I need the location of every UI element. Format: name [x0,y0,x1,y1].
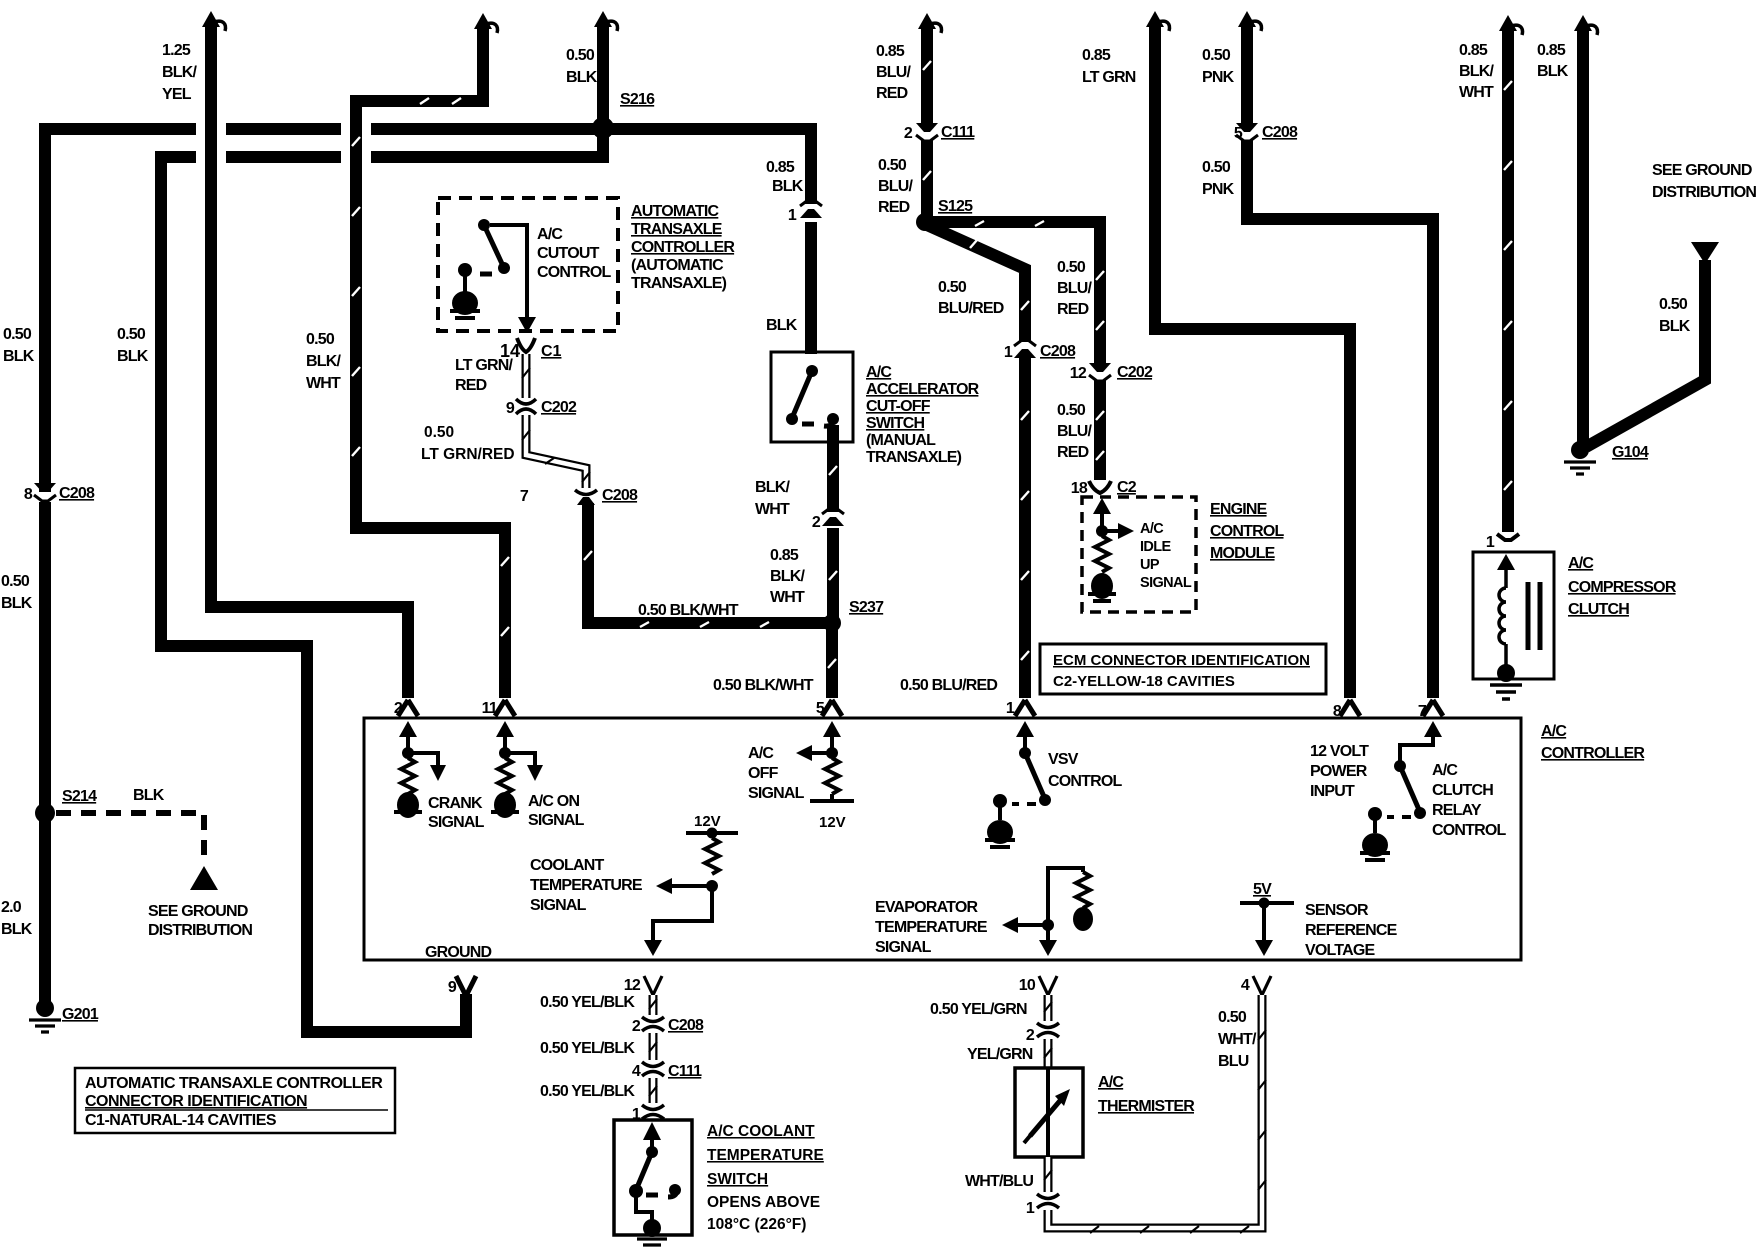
wire thin LT GRN/RED C1-14 to C202-9 [522,354,530,398]
connector C111 pin 4 (yel/blk) [642,1062,664,1076]
svg-text:COOLANT: COOLANT [530,857,605,874]
wire YEL/BLK pin12 to C208-2 [649,995,657,1015]
svg-text:BLK/: BLK/ [162,64,197,81]
svg-text:C208: C208 [59,485,95,502]
label 0.50 BLK/WHT (W4) [306,331,341,392]
svg-text:10: 10 [1019,977,1036,994]
wire accel switch to connector 2 to S237 [829,425,837,618]
svg-text:SIGNAL: SIGNAL [748,785,805,802]
ATC box text [85,1075,388,1129]
svg-text:108°C (226°F): 108°C (226°F) [707,1216,806,1233]
svg-text:S125: S125 [938,198,973,215]
svg-text:0.85: 0.85 [876,43,905,60]
svg-text:0.50 YEL/BLK: 0.50 YEL/BLK [540,1040,635,1057]
connector compressor pin 1 [1497,534,1519,540]
pin 5 connector top [822,700,842,716]
label 0.50 PNK (lower) [1202,159,1235,198]
svg-text:1: 1 [632,1106,641,1123]
label EVAPORATOR TEMPERATURE SIGNAL [875,899,988,956]
wire S237 horizontal to C208-7 riser [584,503,828,627]
wire S125 diagonal to C208-1 to pin 1 [927,225,1029,698]
svg-text:BLK: BLK [117,348,149,365]
wire YEL/BLK C208-2 to C111-4 [649,1033,657,1060]
top arrow W4 [474,13,498,33]
svg-text:0.85: 0.85 [766,159,795,176]
label 0.50 BLK (G104 wire) [1659,296,1691,335]
wire 0.50 PNK to pin 7 [1247,22,1433,698]
splice S125 [916,213,934,231]
svg-text:0.85: 0.85 [1082,47,1111,64]
svg-text:12: 12 [1070,365,1087,382]
svg-text:TEMPERATURE: TEMPERATURE [530,877,643,894]
svg-text:BLU/: BLU/ [878,178,913,195]
label SEE GROUND DISTRIBUTION left [148,903,252,939]
wire S214 dashed to ground triangle [56,813,218,890]
label 0.50 BLK (W2) [117,326,149,365]
ECM box text [1053,652,1310,690]
a/c on signal circuit [491,721,543,818]
svg-text:AUTOMATIC: AUTOMATIC [631,203,720,220]
pin 1 connector top [1015,700,1035,716]
connector C208 pin 7 [575,490,597,505]
svg-text:12V: 12V [694,813,721,830]
wire S237 down to pin 5 [828,627,836,698]
svg-text:DISTRIBUTION: DISTRIBUTION [148,922,252,939]
svg-text:12V: 12V [819,814,846,831]
connector C202 pin 12 [1089,363,1111,381]
svg-text:1: 1 [1006,700,1015,717]
top arrow PNK [1238,11,1262,31]
svg-text:WHT/BLU: WHT/BLU [965,1173,1033,1190]
top arrow BLK [1574,15,1598,35]
labels YEL/BLK chain [540,994,704,1123]
svg-text:C202: C202 [541,399,577,416]
svg-text:0.50 YEL/GRN: 0.50 YEL/GRN [930,1001,1027,1018]
compressor clutch coil and plates [1490,554,1540,699]
wire 0.85 BLK/WHT to compressor clutch pin 1 [1504,26,1512,532]
connector pin 1 (thermister) [1037,1194,1059,1208]
svg-text:TRANSAXLE): TRANSAXLE) [866,449,962,466]
a/c off signal circuit [796,721,854,801]
wire W2 ground run to pin 9 [161,157,466,1032]
svg-text:VOLTAGE: VOLTAGE [1305,942,1375,959]
connector pin 1 (coolant switch) [642,1105,664,1119]
connector C208 pin 8 [34,483,56,502]
wire see-ground triangle to G104 [1586,260,1705,447]
svg-text:G201: G201 [62,1006,99,1023]
svg-text:CLUTCH: CLUTCH [1432,782,1493,799]
label 12 C202 [1070,364,1153,382]
svg-text:SENSOR: SENSOR [1305,902,1369,919]
svg-text:2: 2 [394,700,403,717]
evaporator temperature signal circuit [1002,868,1093,956]
svg-text:0.50 YEL/BLK: 0.50 YEL/BLK [540,994,635,1011]
svg-text:YEL: YEL [162,86,192,103]
crank signal circuit [394,721,446,818]
label 0.50 BLK lower left [1,573,33,612]
svg-text:0.50: 0.50 [1202,159,1231,176]
svg-text:1: 1 [1486,534,1495,551]
svg-text:REFERENCE: REFERENCE [1305,922,1398,939]
svg-text:C202: C202 [1117,364,1153,381]
svg-text:RED: RED [876,85,908,102]
svg-text:1.25: 1.25 [162,42,191,59]
svg-text:SWITCH: SWITCH [707,1171,768,1188]
svg-text:8: 8 [1333,703,1342,720]
svg-text:LT GRN/: LT GRN/ [455,357,514,374]
label A/C IDLE UP SIGNAL [1140,521,1192,591]
svg-text:BLK: BLK [566,69,598,86]
label AUTOMATIC TRANSAXLE CONTROLLER [631,203,735,292]
A/C compressor clutch box [1473,552,1554,679]
A/C coolant temperature switch box [614,1120,692,1235]
svg-text:A/C: A/C [1140,521,1164,537]
svg-text:BLK: BLK [1659,318,1691,335]
svg-text:1: 1 [1026,1200,1035,1217]
pin 8 connector top [1340,700,1360,716]
svg-text:0.50: 0.50 [3,326,32,343]
wire S216 stem and bus to ground path [226,22,811,204]
svg-text:BLK/: BLK/ [306,353,341,370]
svg-text:C2-YELLOW-18 CAVITIES: C2-YELLOW-18 CAVITIES [1053,673,1235,690]
svg-text:OPENS ABOVE: OPENS ABOVE [707,1194,820,1211]
svg-text:0.50: 0.50 [1057,259,1086,276]
svg-text:BLK: BLK [1,595,33,612]
top arrow LT GRN [1146,11,1170,31]
label LT GRN/ RED [455,357,514,394]
wire WHT/BLU run to pin 4 [1048,995,1266,1233]
svg-text:2: 2 [904,125,913,142]
connector accel pin 1 [800,200,822,218]
label 8 C208 [24,485,95,503]
pin 4 connector bottom [1253,976,1271,995]
svg-text:SWITCH: SWITCH [866,415,925,432]
label CRANK SIGNAL [428,795,485,831]
wire W4 0.50 BLK/WHT to pin 11 [352,24,509,698]
label 18 C2 [1071,479,1137,497]
svg-text:0.85: 0.85 [1459,42,1488,59]
label 0.85 BLK/WHT [1459,42,1494,101]
label A/C CLUTCH RELAY CONTROL [1432,762,1507,839]
svg-text:8: 8 [24,486,33,503]
svg-text:IDLE: IDLE [1140,539,1172,555]
svg-text:WHT/: WHT/ [1218,1031,1257,1048]
labels YEL/GRN chain [930,1001,1035,1217]
svg-text:BLK/: BLK/ [1459,63,1494,80]
svg-text:0.50 BLK/WHT: 0.50 BLK/WHT [638,602,739,619]
svg-text:TEMPERATURE: TEMPERATURE [875,919,988,936]
splice S216 [592,117,614,139]
svg-text:CONTROL: CONTROL [537,264,612,281]
svg-text:A/C: A/C [1098,1074,1124,1091]
svg-text:0.50: 0.50 [878,157,907,174]
svg-text:A/C COOLANT: A/C COOLANT [707,1123,815,1140]
svg-text:RED: RED [878,199,910,216]
splice S237 [823,614,841,632]
connector accel pin 2 [822,508,844,526]
svg-text:0.50: 0.50 [938,279,967,296]
svg-text:LT GRN: LT GRN [1082,69,1136,86]
pin 10 connector bottom [1039,976,1057,995]
label COOLANT TEMPERATURE SIGNAL [530,857,643,914]
svg-text:0.50: 0.50 [424,424,454,441]
label BLK/WHT [755,479,790,518]
svg-text:AUTOMATIC TRANSAXLE CONTROLLER: AUTOMATIC TRANSAXLE CONTROLLER [85,1075,383,1092]
wire YEL/GRN pin10 to conn 2 [1044,995,1052,1021]
label 7 C208 [520,487,638,505]
wire W3 1.25 BLK/YEL to pin 2 [211,22,408,698]
svg-text:INPUT: INPUT [1310,783,1355,800]
svg-text:0.50: 0.50 [1057,402,1086,419]
wire S125 to C202-12 to C2-18 [928,221,1104,480]
label 0.85 BLU/RED [876,43,911,102]
svg-text:BLK: BLK [3,348,35,365]
ATC connector identification box [75,1068,395,1133]
svg-text:0.85: 0.85 [770,547,799,564]
svg-text:9: 9 [448,979,457,996]
splice S214 [35,803,55,823]
svg-text:ECM CONNECTOR IDENTIFICATION: ECM CONNECTOR IDENTIFICATION [1053,652,1310,669]
ECM dashed box [1082,497,1196,612]
wire accel switch feed (BLK) [805,222,817,354]
svg-text:C208: C208 [668,1017,704,1034]
A/C cutout control dashed box [438,198,618,331]
svg-text:C111: C111 [668,1063,702,1080]
svg-text:BLU/: BLU/ [1057,423,1092,440]
svg-text:WHT: WHT [770,589,805,606]
svg-text:UP: UP [1140,557,1160,573]
svg-text:S237: S237 [849,599,884,616]
label SEE GROUND DISTRIBUTION right [1652,162,1756,201]
wire WHT/BLU thermister to conn 1 [1044,1157,1052,1192]
svg-text:C208: C208 [1262,124,1298,141]
svg-text:GROUND: GROUND [425,944,492,961]
svg-text:C208: C208 [602,487,638,504]
svg-text:DISTRIBUTION: DISTRIBUTION [1652,184,1756,201]
label 0.50 BLU/RED (diagonal branch) [938,279,1004,317]
svg-text:SIGNAL: SIGNAL [428,814,485,831]
svg-text:CONTROL: CONTROL [1048,773,1123,790]
svg-text:4: 4 [632,1063,641,1080]
svg-text:BLK: BLK [1537,63,1569,80]
svg-text:POWER: POWER [1310,763,1368,780]
coolant temperature signal circuit [644,828,738,957]
svg-text:9: 9 [506,400,515,417]
svg-text:SIGNAL: SIGNAL [528,812,585,829]
svg-text:12 VOLT: 12 VOLT [1310,743,1369,760]
svg-text:PNK: PNK [1202,69,1235,86]
svg-text:SEE GROUND: SEE GROUND [148,903,248,920]
A/C accelerator cut-off switch box [771,352,853,442]
label 0.85 LT GRN [1082,47,1136,86]
pin 12 connector bottom [644,976,662,995]
svg-text:BLK: BLK [1,921,33,938]
pin 9 connector bottom [456,976,476,996]
label VSV CONTROL [1048,751,1123,790]
svg-text:OFF: OFF [748,765,779,782]
svg-text:WHT: WHT [306,375,341,392]
svg-text:CONTROL: CONTROL [1210,523,1285,540]
label A/C CONTROLLER [1541,723,1645,762]
label A/C COMPRESSOR CLUTCH [1568,555,1677,618]
svg-text:ENGINE: ENGINE [1210,501,1268,518]
svg-text:0.50: 0.50 [306,331,335,348]
svg-text:BLU/: BLU/ [876,64,911,81]
svg-text:(AUTOMATIC: (AUTOMATIC [631,257,724,274]
svg-text:0.50: 0.50 [1218,1009,1247,1026]
svg-text:A/C: A/C [748,745,774,762]
ECM connector identification box [1040,644,1326,694]
svg-text:0.50: 0.50 [566,47,595,64]
sensor reference voltage circuit [1240,898,1294,957]
pin 7 connector top [1423,700,1443,716]
connector C2 pin 18 [1089,481,1111,493]
label 0.50 BLK far left [3,326,35,365]
svg-text:TRANSAXLE: TRANSAXLE [631,221,723,238]
svg-text:MODULE: MODULE [1210,545,1276,562]
label A/C COOLANT TEMPERATURE SWITCH [707,1123,824,1233]
wire W1 0.50 BLK left vertical with top bus horizontal [45,129,600,1002]
svg-text:BLK/: BLK/ [770,568,805,585]
svg-text:RED: RED [455,377,487,394]
svg-text:A/C: A/C [1568,555,1594,572]
pin 2 connector top [398,700,418,716]
svg-text:WHT: WHT [755,501,790,518]
svg-text:SIGNAL: SIGNAL [1140,575,1192,591]
svg-text:G104: G104 [1612,444,1649,461]
svg-text:A/C ON: A/C ON [528,793,579,810]
svg-text:TRANSAXLE): TRANSAXLE) [631,275,727,292]
svg-text:1: 1 [788,207,797,224]
svg-text:BLU/: BLU/ [1057,280,1092,297]
svg-text:7: 7 [520,488,529,505]
svg-text:SEE GROUND: SEE GROUND [1652,162,1752,179]
svg-text:PNK: PNK [1202,181,1235,198]
top arrow BLK/WHT [1499,15,1523,35]
connector C208 pin 5 [1236,123,1258,141]
label 1 C208 [1004,343,1076,361]
label 0.85 BLK/WHT [770,547,805,606]
ECM idle up circuit [1088,498,1134,601]
wire 0.85 LT GRN to pin 8 [1155,22,1350,698]
svg-text:SIGNAL: SIGNAL [530,897,587,914]
svg-text:C111: C111 [941,124,975,141]
svg-text:0.50 BLK/WHT: 0.50 BLK/WHT [713,677,814,694]
connector C208 pin 1 [1014,340,1036,358]
svg-text:BLU/RED: BLU/RED [938,300,1004,317]
svg-text:CONNECTOR IDENTIFICATION: CONNECTOR IDENTIFICATION [85,1093,307,1110]
svg-text:C1: C1 [541,343,562,360]
A/C controller box [364,718,1521,960]
svg-text:WHT: WHT [1459,84,1494,101]
svg-text:TEMPERATURE: TEMPERATURE [707,1147,824,1164]
svg-text:11: 11 [482,700,498,717]
svg-text:0.50 YEL/BLK: 0.50 YEL/BLK [540,1083,635,1100]
svg-text:A/C: A/C [537,226,563,243]
label A/C ACCELERATOR CUT-OFF SWITCH [866,364,980,466]
label 2.0 BLK [1,899,33,938]
pin numbers bottom [448,977,1250,996]
wire cutout control output arrow to C1 pin 14 [490,225,536,333]
svg-text:4: 4 [1241,977,1250,994]
svg-text:5V: 5V [1253,881,1272,898]
top arrow BLU/RED [918,13,942,33]
svg-text:C208: C208 [1040,343,1076,360]
connector pin 2 (thermister) [1037,1023,1059,1037]
svg-text:7: 7 [1418,703,1427,720]
svg-text:VSV: VSV [1048,751,1079,768]
pin numbers top [394,700,1427,720]
svg-text:2: 2 [812,514,821,531]
svg-text:RED: RED [1057,301,1089,318]
svg-text:BLK: BLK [133,787,165,804]
label 0.50 PNK (top) [1202,47,1235,86]
svg-text:EVAPORATOR: EVAPORATOR [875,899,978,916]
svg-text:CONTROLLER: CONTROLLER [631,239,735,256]
svg-text:(MANUAL: (MANUAL [866,432,936,449]
label 0.50 WHT/BLU [1218,1009,1257,1070]
switch inside coolant box [629,1122,681,1245]
label 0.50 BLK (S216 wire) [566,47,598,86]
svg-text:2: 2 [632,1018,641,1035]
svg-text:CRANK: CRANK [428,795,483,812]
svg-text:BLK/: BLK/ [755,479,790,496]
svg-text:5: 5 [816,700,825,717]
connector C1 pin 14 [517,338,535,352]
label 0.50 BLU/RED (below C202) [1057,402,1092,461]
label 0.50 BLU/RED (below C111) [878,157,913,216]
a/c clutch relay control circuit [1360,721,1442,860]
label A/C THERMISTER [1098,1074,1195,1115]
svg-text:0.50: 0.50 [117,326,146,343]
svg-text:THERMISTER: THERMISTER [1098,1098,1195,1115]
label 0.50 BLU/RED (C202 branch upper) [1057,259,1092,318]
splice G104 with ground symbol [1564,441,1596,474]
label SENSOR REFERENCE VOLTAGE [1305,902,1398,959]
label 2 C111 [904,124,975,142]
svg-text:C2: C2 [1117,479,1137,496]
svg-text:CONTROL: CONTROL [1432,822,1507,839]
label 9 C202 [506,399,577,417]
svg-text:SIGNAL: SIGNAL [875,939,932,956]
ground triangle right [1691,242,1719,264]
svg-text:S216: S216 [620,91,655,108]
label S214 BLK [62,787,165,805]
svg-text:0.50: 0.50 [1,573,30,590]
label 12 VOLT POWER INPUT [1310,743,1369,800]
svg-text:1: 1 [1004,344,1013,361]
svg-text:ACCELERATOR: ACCELERATOR [866,381,980,398]
top arrow W3 [202,11,226,31]
svg-text:0.50: 0.50 [1659,296,1688,313]
svg-text:5: 5 [1234,125,1243,142]
wire thin LT GRN/RED C202-9 to C208-7 [522,415,590,488]
thermister symbol [1024,1068,1070,1157]
label 0.85 BLK [1537,42,1569,80]
wire YEL/GRN conn2 to thermister [1044,1039,1052,1068]
svg-text:RED: RED [1057,444,1089,461]
label A/C OFF SIGNAL [748,745,805,802]
connector C202 pin 9 [516,399,536,414]
svg-text:CUT-OFF: CUT-OFF [866,398,931,415]
svg-text:S214: S214 [62,788,97,805]
connector C111 pin 2 [916,123,938,141]
svg-text:2: 2 [1026,1027,1035,1044]
label 1.25 BLK/YEL [162,42,197,103]
connector C208 pin 2 (yel/blk) [642,1017,664,1031]
vsv control circuit [985,721,1051,847]
svg-text:RELAY: RELAY [1432,802,1482,819]
